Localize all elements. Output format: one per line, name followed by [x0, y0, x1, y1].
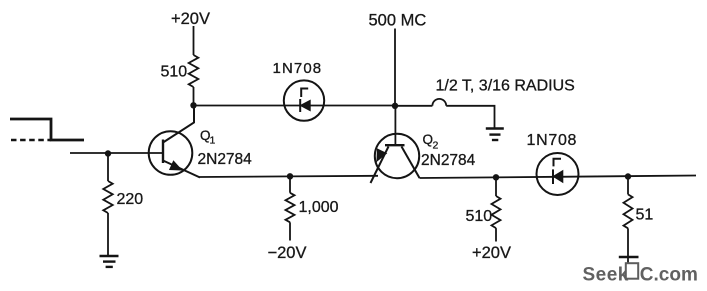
resistor R 51: [624, 177, 633, 258]
wire input to Q1 base: [70, 152, 163, 154]
transistor Q2 2N2784: [371, 106, 420, 183]
svg-text:C.com: C.com: [640, 265, 698, 286]
transistor Q1 2N2784: [149, 106, 200, 178]
svg-text:510: 510: [466, 208, 493, 225]
svg-text:1N708: 1N708: [527, 132, 578, 149]
terminal bar (51 resistor): [619, 256, 639, 259]
svg-text:2: 2: [433, 140, 439, 152]
svg-text:−20V: −20V: [268, 244, 307, 262]
node input junction: [105, 150, 111, 156]
wire 500 MC input: [394, 29, 396, 107]
svg-text:+20V: +20V: [171, 10, 210, 28]
node Q1 collector junction: [190, 102, 196, 108]
svg-text:2N2784: 2N2784: [198, 151, 253, 168]
svg-text:Q: Q: [423, 132, 434, 147]
svg-text:220: 220: [117, 191, 144, 208]
svg-text:510: 510: [161, 64, 188, 81]
node 51 junction: [625, 173, 631, 179]
svg-text:2N2784: 2N2784: [421, 152, 476, 169]
svg-text:1N708: 1N708: [273, 60, 323, 77]
inductor L1 half-turn: [395, 99, 495, 128]
ground (220 resistor): [100, 256, 119, 267]
svg-text:Seek: Seek: [583, 265, 629, 286]
svg-text:500 MC: 500 MC: [369, 12, 427, 30]
node 500 MC junction: [392, 103, 398, 109]
resistor R 510 (right): [492, 177, 501, 241]
svg-text:1,000: 1,000: [299, 199, 339, 216]
svg-text:51: 51: [636, 207, 654, 224]
tunnel diode D1 1N708: [284, 80, 324, 120]
resistor R 510 (left): [189, 55, 199, 105]
svg-text:+20V: +20V: [472, 244, 511, 262]
resistor R 1,000: [286, 176, 295, 240]
input step waveform: [10, 119, 84, 140]
node 1000 junction: [287, 173, 293, 179]
resistor R 220: [103, 154, 112, 256]
tunnel diode D2 1N708: [537, 153, 579, 195]
wire collector rail to 500MC node: [194, 105, 396, 107]
wire lower rail (right): [420, 176, 697, 179]
ground (inductor): [486, 129, 504, 141]
wire lower rail (left): [200, 176, 379, 177]
svg-text:1/2 T, 3/16 RADIUS: 1/2 T, 3/16 RADIUS: [436, 78, 575, 95]
svg-text:1: 1: [210, 135, 216, 147]
wire +20V to resistor: [193, 26, 195, 55]
node 510 junction (right): [493, 174, 499, 180]
